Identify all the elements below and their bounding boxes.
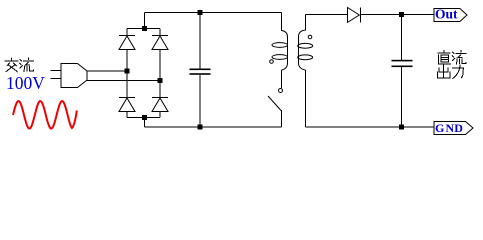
capacitor C2 top lead [401, 15, 403, 61]
red AC sine wave [13, 101, 77, 129]
wire: primary bottom rail [145, 126, 282, 128]
wire: primary rail corner drop to transformer [281, 13, 283, 32]
wire: bridge top to rail riser [144, 13, 146, 29]
node: C1 bottom junction [198, 125, 203, 130]
node: C1 top junction [198, 10, 203, 15]
diode D1 (bridge upper-left) [119, 36, 135, 50]
transformer T1 secondary winding [298, 30, 313, 70]
plug prong bottom [51, 78, 62, 80]
capacitor C2 bottom lead [401, 67, 403, 127]
node: C2 top junction [399, 12, 404, 17]
diode D4 (bridge lower-right) [152, 98, 168, 112]
label: DC output text 直流出力 (drawn kanji) [437, 51, 465, 79]
kanji 力 [452, 65, 463, 78]
GND label flag [434, 122, 473, 135]
wire: bridge left column [126, 29, 128, 36]
svg-text:Out: Out [435, 7, 458, 22]
wire: right column bottom lead [159, 112, 161, 118]
wire: secondary bottom lead [305, 70, 307, 127]
node: cord/bridge-left junction [125, 69, 130, 74]
wire: left column bottom lead [126, 112, 128, 118]
label: AC text 交流 (drawn kanji) [5, 58, 33, 72]
plug prong top [51, 70, 62, 72]
capacitor C2 plates [392, 60, 413, 67]
svg-text:100V: 100V [6, 73, 45, 93]
svg-text:GND: GND [435, 121, 463, 135]
capacitor C1 top lead [199, 13, 201, 69]
wire: primary bottom lead to switch [281, 70, 283, 88]
wire: bridge top bar [127, 28, 160, 30]
wire: left column mid [126, 50, 128, 98]
wire: bridge bottom to rail drop [144, 118, 146, 128]
kanji 交 [5, 58, 18, 71]
switch blade [268, 96, 281, 111]
wire: secondary top rail to diode [306, 14, 348, 16]
wire: secondary bottom rail to GND [306, 126, 435, 128]
transformer T1 primary winding [272, 31, 288, 71]
node: bridge top junction [142, 26, 147, 31]
wire: bridge bottom bar [127, 117, 160, 119]
wire: primary top rail [145, 12, 282, 14]
wire: right column mid [159, 50, 161, 98]
secondary polarity dot [308, 35, 312, 39]
diode D5 (output rectifier) [348, 8, 361, 23]
AC plug body [61, 64, 87, 88]
wire: diode to Out label [361, 14, 435, 16]
node: cord/bridge-right junction [158, 78, 163, 83]
kanji 直 [438, 51, 451, 64]
wire: switch bottom lead [281, 110, 283, 127]
kanji 流 (second) [452, 51, 466, 65]
capacitor C1 plates [190, 69, 211, 75]
wire: secondary top lead riser [305, 15, 307, 31]
kanji 出 [437, 65, 450, 78]
switch contact circle [279, 89, 283, 93]
primary polarity dot [270, 60, 274, 64]
node: bridge bottom junction [142, 115, 147, 120]
diode D3 (bridge lower-left) [119, 98, 135, 112]
diode D2 (bridge upper-right) [152, 36, 168, 50]
wire: bridge right column top lead [159, 29, 161, 36]
capacitor C1 bottom lead [199, 75, 201, 127]
Out label flag [434, 9, 467, 22]
wire: cord top conductor to bridge left [87, 70, 127, 72]
wire: cord bottom conductor to bridge right [87, 80, 160, 82]
kanji 流 [20, 58, 34, 72]
node: C2 bottom junction [399, 125, 404, 130]
